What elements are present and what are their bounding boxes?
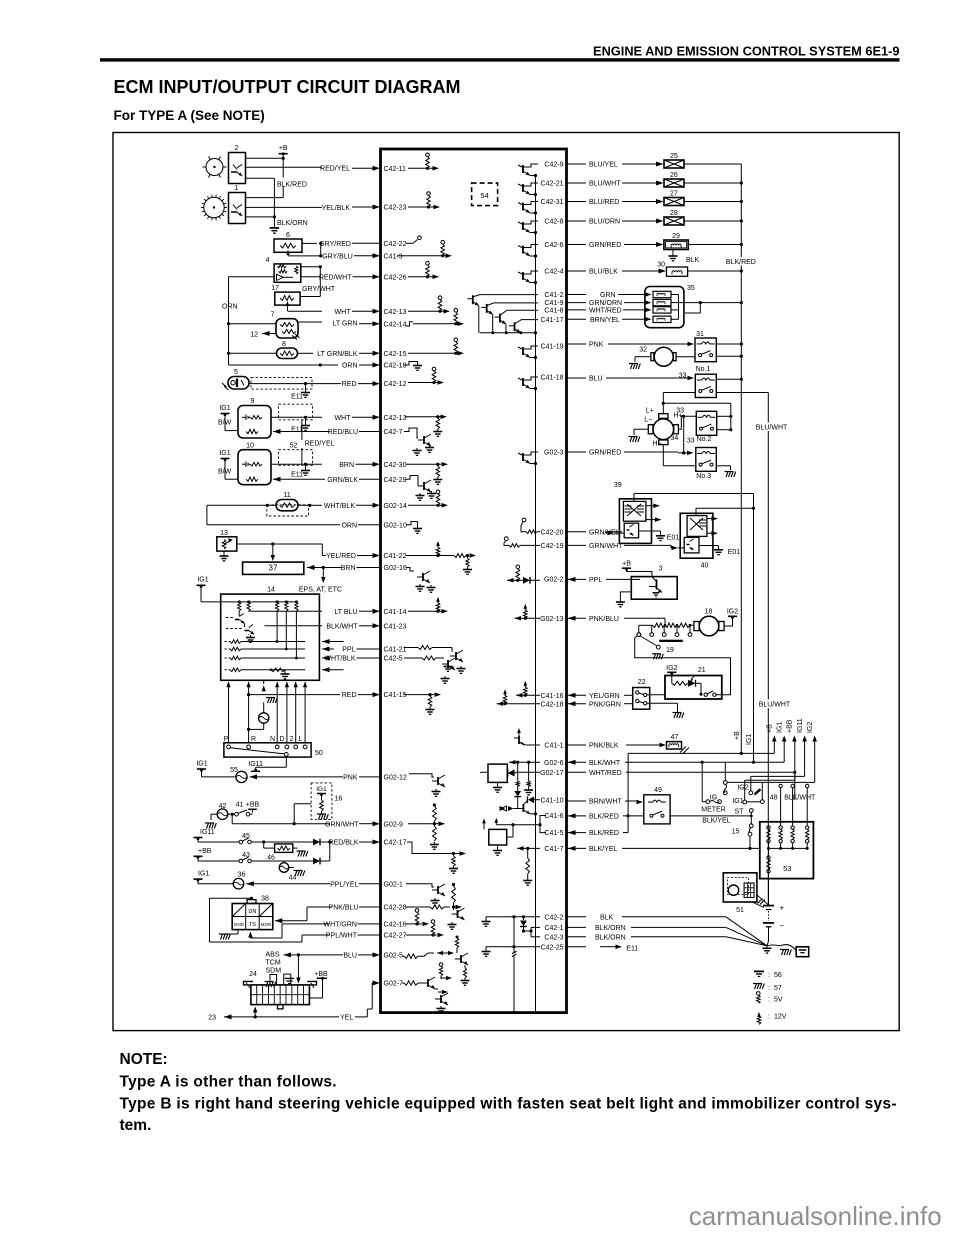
note line 3 <box>120 1117 152 1134</box>
wire YEL/RED C41-22 <box>237 542 407 560</box>
svg-text:tem.: tem. <box>120 1117 152 1134</box>
svg-text:MON: MON <box>261 922 272 927</box>
svg-text:C42-2: C42-2 <box>544 914 563 921</box>
rot label IG1 bus <box>746 734 753 745</box>
svg-text:WHT/RED: WHT/RED <box>589 770 622 777</box>
wire WHT C42-13 <box>288 309 407 316</box>
int C41-22 <box>406 541 476 574</box>
int C41-14 12V <box>408 597 448 614</box>
svg-text:51: 51 <box>736 907 744 914</box>
svg-text:25: 25 <box>670 153 678 160</box>
svg-text:B/W: B/W <box>218 419 232 426</box>
int C42-2 <box>482 914 564 932</box>
svg-text:BLU/YEL: BLU/YEL <box>589 162 618 169</box>
svg-text:IG1: IG1 <box>196 761 207 768</box>
svg-text::: : <box>768 1014 770 1021</box>
svg-text:C42-16: C42-16 <box>384 922 407 929</box>
motor 32 <box>629 347 676 370</box>
svg-text:D: D <box>279 736 284 743</box>
svg-text:ORN: ORN <box>342 363 358 370</box>
svg-text:IG2: IG2 <box>666 665 677 672</box>
sensor 4 <box>266 257 301 282</box>
svg-text:C42-20: C42-20 <box>541 529 564 536</box>
wire GRY/RED C42-22 <box>302 241 407 256</box>
svg-text:IG1: IG1 <box>316 786 327 793</box>
lamp 36 <box>233 872 245 889</box>
int G02-12 drv <box>409 774 445 797</box>
svg-text:C41-15: C41-15 <box>384 692 407 699</box>
power arrow +B <box>767 724 777 753</box>
svg-text:N: N <box>270 736 275 743</box>
ignition switch <box>701 762 816 815</box>
ground E11 (10) <box>291 463 310 479</box>
module 3 <box>631 566 677 600</box>
svg-text:RED/YEL: RED/YEL <box>305 440 335 447</box>
wire LT GRN C42-14 <box>229 321 407 329</box>
+B supply (3) <box>622 561 652 577</box>
svg-text:E01: E01 <box>667 534 680 541</box>
injector 27 <box>567 191 743 207</box>
svg-text:RED: RED <box>342 381 357 388</box>
int C42-22 switch <box>406 236 421 243</box>
shift lamp <box>247 713 269 731</box>
wire PNK/GRN C42-18 <box>567 701 684 718</box>
dashed box 54 <box>472 183 498 206</box>
wire BLK/WHT C41-23 <box>264 623 406 630</box>
int G02-1 drv <box>406 884 445 906</box>
int G02-17 <box>514 762 563 808</box>
svg-text:18: 18 <box>705 608 713 615</box>
svg-text:C41-5: C41-5 <box>544 830 563 837</box>
svg-text:G02-2: G02-2 <box>544 576 564 583</box>
lamp 42 <box>205 803 228 828</box>
relay No.2 wires <box>662 402 733 455</box>
IG11 supply (45) <box>194 829 239 842</box>
wire 35 to bus <box>679 301 743 313</box>
ORN bus <box>222 277 238 365</box>
svg-text:55: 55 <box>230 767 238 774</box>
bus BLU/WHT <box>755 393 791 906</box>
int C42-20 <box>521 518 564 536</box>
coil 39 leads <box>634 494 755 522</box>
svg-text:G02-5: G02-5 <box>384 953 404 960</box>
svg-text:32: 32 <box>639 347 647 354</box>
wire WHT/BLK G02-14 <box>266 503 407 510</box>
sensor 8 <box>277 341 298 359</box>
int G02-3 driver <box>518 450 564 466</box>
svg-text:C41-19: C41-19 <box>541 344 564 351</box>
wire ORN G02-10 <box>207 505 407 529</box>
IAC resistors <box>637 623 694 642</box>
int C42-4 driver <box>518 269 564 285</box>
resistor 46 <box>251 840 307 861</box>
title <box>114 77 461 97</box>
int C41-15 gnd <box>404 692 441 714</box>
svg-text:BLK/YEL: BLK/YEL <box>589 846 618 853</box>
+B supply (top) <box>279 145 288 160</box>
svg-text:BRN/WHT: BRN/WHT <box>589 799 622 806</box>
svg-text:23: 23 <box>208 1015 216 1022</box>
svg-text:C42-26: C42-26 <box>384 274 407 281</box>
int C41 quad drivers <box>480 292 564 334</box>
bus IG1 mid <box>753 508 755 762</box>
svg-text:RED/BLU: RED/BLU <box>328 429 358 436</box>
svg-text:BLK/RED: BLK/RED <box>726 259 756 266</box>
svg-text:G02-7: G02-7 <box>384 981 404 988</box>
int C42-14 5V <box>406 308 464 326</box>
svg-text:17: 17 <box>271 285 279 292</box>
wire RED C42-12 <box>249 381 407 388</box>
wire down from BRN <box>321 568 326 584</box>
lamp hatch <box>264 698 278 704</box>
svg-text:G02-3: G02-3 <box>544 450 564 457</box>
IG1 supply (14) <box>197 577 221 602</box>
svg-text:GRN/ORN: GRN/ORN <box>589 300 622 307</box>
svg-text:C42-4: C42-4 <box>544 269 563 276</box>
svg-text:BLU/WHT: BLU/WHT <box>759 701 791 708</box>
selector riser wires <box>226 681 307 743</box>
svg-text:22: 22 <box>638 679 646 686</box>
int G02-10 gnd <box>406 522 422 534</box>
int diode A <box>507 770 516 777</box>
svg-text:+B: +B <box>622 561 631 568</box>
svg-text:16: 16 <box>335 796 343 803</box>
svg-text:ECM INPUT/OUTPUT CIRCUIT DIAGR: ECM INPUT/OUTPUT CIRCUIT DIAGRAM <box>114 77 461 97</box>
main ground <box>763 946 772 953</box>
note line 2 <box>120 1096 897 1113</box>
int C42-21 driver <box>518 181 564 196</box>
svg-text:L: L <box>299 736 303 743</box>
shield dashed 5 <box>251 378 312 390</box>
svg-text:For TYPE A (See NOTE): For TYPE A (See NOTE) <box>114 108 265 123</box>
svg-text:BRN/YEL: BRN/YEL <box>590 317 620 324</box>
svg-text:26: 26 <box>670 172 678 179</box>
int logic box A <box>480 764 507 792</box>
int C41-6/5 <box>496 813 563 837</box>
int G02-7 <box>402 963 452 1014</box>
svg-text:IG1: IG1 <box>732 798 743 805</box>
svg-text:21: 21 <box>698 667 706 674</box>
int C42-27 5V <box>406 920 444 938</box>
wire LT GRN/BLK C42-15 <box>229 351 407 358</box>
ECM box <box>381 149 567 1013</box>
svg-text:GRN: GRN <box>600 292 616 299</box>
lamp 55 <box>230 767 247 783</box>
module 3 gnd <box>616 592 631 607</box>
svg-text:11: 11 <box>283 492 290 499</box>
sensor 2 rotor <box>203 157 227 178</box>
int C42-13 5V <box>408 296 450 314</box>
svg-text:IG1: IG1 <box>197 577 208 584</box>
relay 33 No.1 <box>679 366 717 398</box>
wire BRN/WHT C41-10 <box>567 799 644 806</box>
int G02-13 <box>515 604 564 623</box>
int G02-16 drv <box>406 568 436 593</box>
svg-text:+B: +B <box>767 724 774 733</box>
relay 33 No.3 <box>687 437 716 480</box>
wire BLK/RED to +B <box>628 752 774 816</box>
svg-text:C41-3: C41-3 <box>384 253 403 260</box>
svg-text:34: 34 <box>671 435 679 442</box>
motor 34 <box>629 407 683 447</box>
relay 31 <box>695 331 716 362</box>
svg-text:carmanualsonline.info: carmanualsonline.info <box>689 1201 942 1231</box>
int G02-5 <box>402 936 470 986</box>
wire 12 arrow <box>250 331 276 338</box>
svg-text:C41-17: C41-17 <box>541 317 564 324</box>
int C41-1 <box>514 728 564 750</box>
svg-text:G02-1: G02-1 <box>384 881 404 888</box>
svg-text:+B: +B <box>279 145 288 152</box>
svg-text:2: 2 <box>290 736 294 743</box>
int C42-19 <box>504 537 564 550</box>
svg-text:C42-18: C42-18 <box>541 701 564 708</box>
svg-text:46: 46 <box>267 855 275 862</box>
svg-text:C42-8: C42-8 <box>544 219 563 226</box>
diode 1 <box>264 839 332 846</box>
int C41 drv 302.9 <box>481 303 538 333</box>
int C41-21 drv <box>404 646 466 674</box>
svg-text:5V: 5V <box>774 997 783 1004</box>
svg-text:9: 9 <box>251 398 255 405</box>
wire into 37 <box>271 544 276 561</box>
sensor 11 <box>276 492 298 511</box>
svg-text:IG11: IG11 <box>797 718 804 733</box>
svg-text:GRN/WHT: GRN/WHT <box>589 543 623 550</box>
svg-text:C42-19: C42-19 <box>541 543 564 550</box>
module 22 <box>633 679 650 709</box>
wire arrow row 641 <box>322 639 344 644</box>
svg-text:IG2: IG2 <box>737 785 748 792</box>
svg-text:IG2: IG2 <box>727 608 738 615</box>
svg-text:No.1: No.1 <box>696 366 711 373</box>
switch 19 <box>635 633 731 695</box>
svg-text:+BB: +BB <box>314 971 328 978</box>
alternator 51 <box>723 873 768 914</box>
oxygen sensor 29 <box>567 233 743 264</box>
battery <box>763 873 785 941</box>
int drv B <box>500 804 538 815</box>
coil 40 <box>680 513 713 569</box>
sensor 13 <box>217 530 237 551</box>
int C42-15 5V <box>408 338 464 356</box>
int C42-17 <box>407 842 466 873</box>
svg-text:RED: RED <box>342 692 357 699</box>
svg-text:C42-22: C42-22 <box>384 241 407 248</box>
wire WHT/BLK C42-5 <box>322 656 403 663</box>
svg-text:PNK: PNK <box>343 775 358 782</box>
svg-text:BLK/RED: BLK/RED <box>589 814 619 821</box>
int C41-19 driver <box>518 344 564 360</box>
IG1 supply (36) <box>194 871 234 884</box>
relay No.3 wires <box>663 445 736 477</box>
svg-text:BLU/WHT: BLU/WHT <box>756 425 788 432</box>
wire BLK/RED C41-6 <box>567 813 644 820</box>
svg-text:IG1: IG1 <box>219 450 230 457</box>
svg-text:G02-14: G02-14 <box>384 503 407 510</box>
svg-text:E11: E11 <box>291 394 303 401</box>
IG2 supply (21) <box>666 665 677 676</box>
svg-text:WHT/BLK: WHT/BLK <box>324 503 355 510</box>
svg-text:G02-10: G02-10 <box>384 522 407 529</box>
svg-text:G02-6: G02-6 <box>544 760 564 767</box>
wire PPL/YEL G02-1 <box>246 881 403 888</box>
svg-text:C41-16: C41-16 <box>541 693 564 700</box>
relay 49 <box>644 787 670 824</box>
svg-text:28: 28 <box>670 210 678 217</box>
int C42-12 5V <box>408 367 444 385</box>
switch 45 <box>239 833 251 844</box>
wire BRN G02-16 <box>307 565 407 572</box>
int C41 drv 310.2 <box>494 310 538 333</box>
svg-text:C41-8: C41-8 <box>544 308 563 315</box>
wire PNK G02-12 <box>250 774 407 781</box>
svg-text:C42-1: C42-1 <box>544 925 563 932</box>
int C42-30 gnd <box>406 462 448 484</box>
svg-text:C42-31: C42-31 <box>541 199 564 206</box>
svg-text:PNK/BLK: PNK/BLK <box>589 743 619 750</box>
svg-text:4: 4 <box>266 257 270 264</box>
svg-text:GRY/BLU: GRY/BLU <box>322 254 353 261</box>
svg-text:LT GRN/BLK: LT GRN/BLK <box>317 351 358 358</box>
legend 57 <box>753 984 782 992</box>
relay No.1 wires <box>663 378 768 414</box>
svg-text:SDM: SDM <box>266 967 282 974</box>
int E11 bus <box>512 917 517 1014</box>
int C42-16 5V <box>406 909 429 927</box>
svg-text:24: 24 <box>249 971 257 978</box>
svg-text:−: − <box>780 922 785 931</box>
svg-text:15: 15 <box>732 829 740 836</box>
resistor box 37 <box>243 562 304 574</box>
svg-text:RED/WHT: RED/WHT <box>319 274 352 281</box>
wire PNK/BLU G02-13 <box>567 616 666 626</box>
svg-text:33: 33 <box>687 437 695 444</box>
int C42-26 5V <box>408 261 439 279</box>
svg-text:BLK/RED: BLK/RED <box>589 830 619 837</box>
svg-text:IG1: IG1 <box>746 734 753 745</box>
coil 39 <box>614 482 652 543</box>
switch 15 <box>732 809 753 850</box>
svg-text:C42-7: C42-7 <box>384 429 403 436</box>
svg-text:19: 19 <box>666 647 674 654</box>
svg-text:+BB: +BB <box>246 802 260 809</box>
sensor 38 <box>232 896 273 930</box>
wire sensor1 gnd <box>246 215 308 228</box>
svg-text:54: 54 <box>480 191 488 200</box>
shield dashed 52 <box>279 442 313 465</box>
int C42-29 drv <box>406 476 436 501</box>
wire RED/WHT C42-26 <box>229 274 407 281</box>
svg-text:BLU/WHT: BLU/WHT <box>589 181 621 188</box>
svg-text:WHT: WHT <box>335 309 352 316</box>
svg-text:G02-9: G02-9 <box>384 821 404 828</box>
svg-text:3: 3 <box>659 566 663 573</box>
rot label +B bus <box>734 731 741 740</box>
power arrow IG11 <box>751 718 807 791</box>
label ABS TCM SDM <box>266 952 282 975</box>
wire BLK/YEL 49 <box>670 816 751 825</box>
svg-text:+BB: +BB <box>787 719 794 733</box>
sensor 7 <box>271 312 300 340</box>
watermark <box>689 1201 942 1231</box>
relay31 bus wires <box>716 342 743 357</box>
svg-text:WHT/RED: WHT/RED <box>589 308 622 315</box>
svg-text:C42-9: C42-9 <box>544 162 563 169</box>
module 21 <box>665 667 722 699</box>
svg-text:13: 13 <box>220 530 228 537</box>
wires into 35 <box>567 292 652 324</box>
wire BLU relay33 <box>567 376 695 383</box>
oxygen sensor 30 <box>567 261 743 276</box>
ECM internal bus <box>535 176 537 1013</box>
module 35 <box>645 285 695 328</box>
svg-text:BLK: BLK <box>600 914 614 921</box>
svg-text:12V: 12V <box>774 1014 787 1021</box>
svg-text:C41-21: C41-21 <box>384 647 407 654</box>
int C42-11 5V <box>408 153 439 171</box>
diode 2 <box>284 842 330 864</box>
svg-text:BLU/RED: BLU/RED <box>589 199 619 206</box>
svg-text:PPL: PPL <box>342 647 355 654</box>
int C42-31 driver <box>518 199 564 214</box>
svg-text:BLU/ORN: BLU/ORN <box>589 219 620 226</box>
svg-text:NOTE:: NOTE: <box>120 1051 168 1068</box>
svg-text:PPL: PPL <box>589 577 602 584</box>
svg-text:GRN/RED: GRN/RED <box>589 450 621 457</box>
svg-text:Type B is right hand steering: Type B is right hand steering vehicle eq… <box>120 1096 897 1113</box>
svg-text:GRN/WHT: GRN/WHT <box>325 821 359 828</box>
switch 41 <box>228 802 260 816</box>
svg-text:PPL/YEL: PPL/YEL <box>330 881 359 888</box>
svg-text:ORN: ORN <box>341 522 357 529</box>
svg-text:C42-3: C42-3 <box>544 934 563 941</box>
int C42-25 <box>482 944 564 956</box>
diagram frame <box>113 133 899 1031</box>
svg-text:LT GRN: LT GRN <box>332 321 357 328</box>
svg-text:C42-23: C42-23 <box>384 205 407 212</box>
svg-text:C42-29: C42-29 <box>384 477 407 484</box>
svg-text:C42-14: C42-14 <box>384 321 407 328</box>
svg-text:C42-28: C42-28 <box>384 905 407 912</box>
svg-text:2: 2 <box>235 145 239 152</box>
sensor 5 <box>222 369 249 390</box>
svg-text:+: + <box>780 904 785 913</box>
wire GRY/BLU C41-3 <box>288 253 403 260</box>
int C41-18 driver <box>518 375 564 391</box>
body ground hatch <box>780 950 791 956</box>
page header <box>593 43 899 58</box>
svg-text:GRY/WHT: GRY/WHT <box>302 286 336 293</box>
+BB supply (43) <box>194 848 239 861</box>
svg-text:P: P <box>224 736 229 743</box>
int G02-9 <box>408 803 445 849</box>
svg-text:IG1: IG1 <box>198 871 209 878</box>
ground E11 (5) <box>291 384 310 401</box>
wire BLK/WHT G02-6 <box>567 760 785 767</box>
bus BLK/RED <box>725 164 758 753</box>
svg-text:C42-30: C42-30 <box>384 462 407 469</box>
svg-text:ABS: ABS <box>266 952 280 959</box>
wire PPL G02-2 <box>567 577 632 584</box>
int C42-10 gnd <box>404 362 422 371</box>
note line 1 <box>120 1074 337 1091</box>
svg-text:PNK/BLU: PNK/BLU <box>589 616 619 623</box>
ground E11 (9) <box>291 416 310 434</box>
wire LT BLU C41-14 <box>249 609 407 616</box>
int C42-1/3 <box>529 925 563 941</box>
ground E01 40 <box>699 546 740 556</box>
